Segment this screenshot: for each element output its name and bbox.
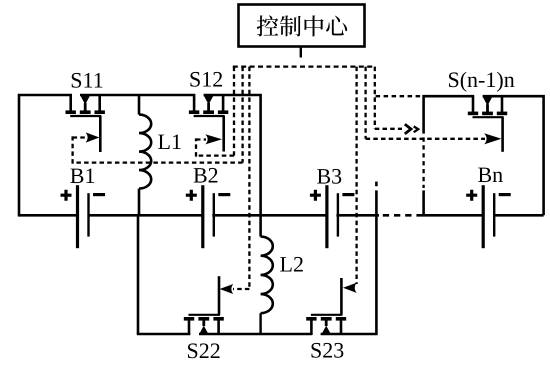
B1 positive plate (long) <box>76 185 79 248</box>
S22 gate plate <box>189 314 221 316</box>
S23 drain stub <box>340 319 343 335</box>
transistor S22 <box>184 276 224 335</box>
control riser to S12 gate <box>233 67 235 156</box>
S(n-1)n gate arrowhead <box>484 133 501 144</box>
S22 gate arrowhead <box>220 284 234 294</box>
S11 channel bar mid <box>80 110 91 114</box>
wire right section top bus right part <box>483 96 544 215</box>
svg-text:S(n-1)n: S(n-1)n <box>448 67 515 92</box>
wire battery bus segment 1 (B1 plus side) <box>18 214 78 217</box>
S11 channel bar left <box>66 110 76 114</box>
B1 minus sign <box>93 193 105 196</box>
S11 gate plate <box>70 115 101 117</box>
S12 body stem <box>207 103 210 112</box>
transistor S11 <box>66 94 105 152</box>
svg-text:B2: B2 <box>193 163 219 188</box>
S(n-1)n body stem <box>486 104 489 113</box>
S(n-1)n source stub <box>501 95 504 113</box>
S(n-1)n channel bar right <box>497 112 507 116</box>
wire battery bus segment 5 (Bn plus side) <box>423 214 484 217</box>
S22 body arrow (up) <box>199 326 209 335</box>
S12 channel bar mid <box>203 110 214 114</box>
wire right section top bus left part <box>424 96 474 133</box>
S22 channel bar left <box>184 317 194 321</box>
wire top bus segment C (S12 body to right corner, down to battery bus, into L2) <box>204 95 261 237</box>
B2 positive plate (long) <box>201 185 204 248</box>
transistor S23 <box>306 278 346 335</box>
Bn negative plate (short) <box>493 193 495 236</box>
svg-text:L1: L1 <box>158 129 182 154</box>
battery B3 <box>310 185 355 248</box>
control riser to S23 gate <box>355 67 357 284</box>
Bn minus sign <box>499 193 511 196</box>
S22 gate lead wire <box>218 276 221 315</box>
control riser to S11 gate <box>241 67 243 163</box>
wire battery bus continuation dots <box>383 214 423 217</box>
continuation top bus link (dashed) <box>376 95 423 97</box>
S23 gate arrowhead <box>343 283 357 293</box>
transistor S12 <box>189 94 228 152</box>
S(n-1)n channel bar left <box>468 112 478 116</box>
S23 gate plate <box>311 314 343 316</box>
S12 channel bar right <box>218 110 228 114</box>
S12 gate plate <box>194 115 225 117</box>
wire L1 bottom stem <box>138 189 141 216</box>
continuation chevron arrow 1 <box>405 124 411 134</box>
S11 channel bar right <box>95 110 105 114</box>
S(n-1)n gate plate <box>473 116 504 118</box>
S11 body stem <box>84 103 87 112</box>
S23 channel bar mid <box>321 317 332 321</box>
S12 gate lead wire <box>222 116 225 152</box>
wire battery bus segment 3 (B2 minus to B3 plus) <box>212 214 327 217</box>
control centre text 控制中心 <box>257 15 347 36</box>
control signal bus bar (dashed) <box>233 65 375 67</box>
S23 gate lead wire <box>340 278 343 315</box>
B3 plus sign <box>310 190 321 201</box>
S11 source stub <box>98 94 101 112</box>
S(n-1)n drain stub <box>472 95 475 113</box>
B3 negative plate (short) <box>337 193 339 236</box>
battery B2 <box>186 185 231 248</box>
S11 drain stub <box>69 94 72 112</box>
S11 body arrow (down) <box>80 95 90 104</box>
S22 drain stub <box>217 319 220 335</box>
B1 plus sign <box>61 190 72 201</box>
S22 body stem <box>202 319 205 326</box>
wire battery bus segment 6 (Bn minus to right edge) <box>494 214 544 217</box>
S11 gate arrowhead <box>86 132 100 142</box>
wire bottom loop right leg (up to node right of B3) <box>375 190 378 334</box>
wire stub dash above right leg <box>375 182 378 187</box>
control riser to S(n-1)n gate <box>364 67 366 139</box>
S23 source stub <box>310 319 313 335</box>
wire bottom rail segment 2 (S22 body to S23 source) <box>199 333 312 336</box>
svg-text:S22: S22 <box>187 338 221 363</box>
S22 channel bar right <box>213 317 223 321</box>
S23 channel bar right <box>336 317 346 321</box>
svg-text:B3: B3 <box>317 164 343 189</box>
control riser to S22 gate <box>248 67 250 289</box>
svg-text:L2: L2 <box>280 252 304 277</box>
svg-text:B1: B1 <box>70 163 96 188</box>
S12 gate control line (dashed) <box>196 138 234 156</box>
wire bottom loop left leg (node B1/B2 down) <box>137 215 140 334</box>
B2 plus sign <box>186 190 197 201</box>
B1 negative plate (short) <box>87 193 89 236</box>
S23 body arrow (up) <box>321 326 331 335</box>
S22 source stub <box>188 319 191 335</box>
B2 minus sign <box>218 193 230 196</box>
wire battery bus segment 2 (B1 minus to B2 plus) <box>88 214 203 217</box>
S12 drain stub <box>193 94 196 112</box>
S23 channel bar left <box>306 317 316 321</box>
S(n-1)n gate control line (dashed) <box>366 138 485 140</box>
S11 gate control line (dashed) <box>73 136 243 163</box>
wire L2 bottom stem <box>259 313 261 334</box>
continuation control line to next stage (dashed) <box>375 128 402 130</box>
control riser to continuation <box>374 67 376 129</box>
S12 gate arrowhead <box>205 134 222 144</box>
svg-text:Bn: Bn <box>478 162 504 187</box>
control centre output lead <box>300 47 302 58</box>
S12 body arrow (down) <box>204 95 214 104</box>
wire battery bus segment 4 (B3 minus to break) <box>336 214 379 217</box>
continuation chevron arrow 2 <box>414 126 419 132</box>
B3 minus sign <box>342 193 354 196</box>
Bn positive plate (long) <box>482 185 485 248</box>
S(n-1)n body arrow (down) <box>483 96 493 105</box>
wire right section left leg dashed part <box>422 137 424 188</box>
S(n-1)n channel bar mid <box>482 112 493 116</box>
S23 body stem <box>325 319 328 326</box>
svg-text:S23: S23 <box>310 338 344 363</box>
S22 channel bar mid <box>198 317 209 321</box>
S12 source stub <box>222 94 225 112</box>
S11 gate lead wire <box>99 116 102 152</box>
transistor S(n-1)n <box>468 95 507 152</box>
wire bottom rail segment 3 (S23 body to right leg) <box>321 333 378 336</box>
S12 channel bar left <box>189 110 199 114</box>
wire L1 top stem <box>138 95 141 115</box>
B3 positive plate (long) <box>325 185 328 248</box>
svg-text:S11: S11 <box>70 67 103 92</box>
battery B1 <box>61 185 106 248</box>
wire top bus segment B (S11 body to S12 drain) <box>80 94 195 97</box>
S(n-1)n gate lead wire <box>501 117 504 152</box>
wire bottom rail segment 1 <box>137 333 190 336</box>
inductor L1 coil <box>139 115 151 189</box>
S22 gate control line (dashed) <box>233 288 249 290</box>
inductor L2 coil <box>261 237 273 314</box>
wire right section left leg bottom part <box>422 190 425 216</box>
battery Bn <box>466 185 511 248</box>
B2 negative plate (short) <box>213 193 215 236</box>
svg-text:S12: S12 <box>189 67 223 92</box>
wire top bus segment A (left edge to S11 drain) <box>19 95 72 215</box>
control centre box U1 (控制中心) <box>239 5 365 47</box>
Bn plus sign <box>466 190 477 201</box>
